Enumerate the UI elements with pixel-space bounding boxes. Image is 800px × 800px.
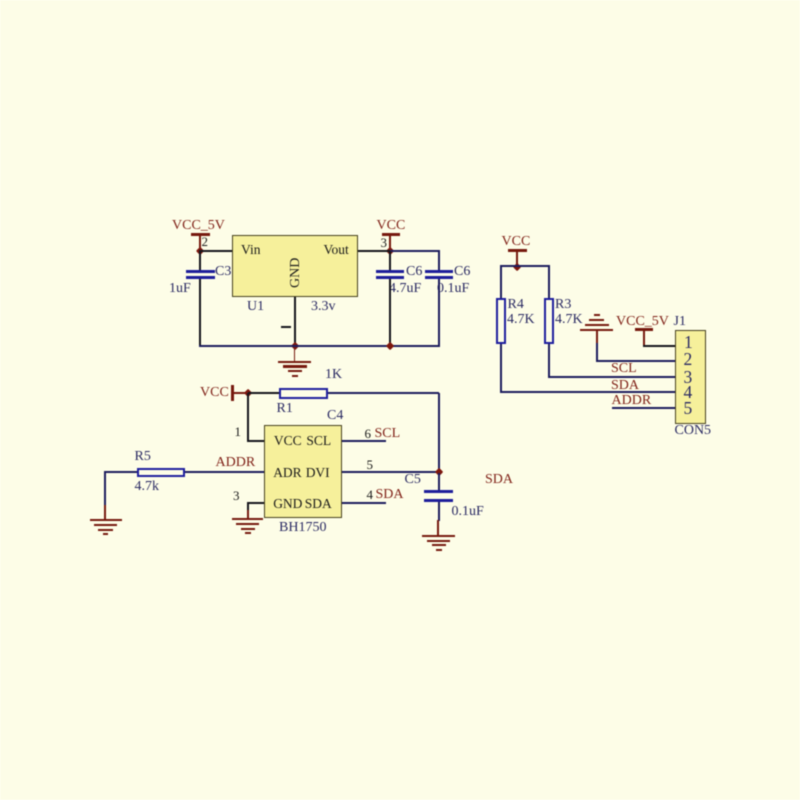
pin name Vout: [324, 243, 349, 257]
designator CON5: [675, 424, 712, 438]
power bar VCC vertical: [231, 385, 233, 401]
net label SDA (pin): [376, 488, 404, 502]
wire SCL column down: [438, 393, 440, 473]
wire ADR pin: [185, 471, 264, 473]
designator U1: [247, 300, 264, 314]
wire VCC to 0.1uF branch: [390, 250, 440, 252]
net label SDA (J1): [611, 379, 639, 393]
resistor R1: [279, 388, 328, 399]
wire R4 top: [500, 266, 502, 298]
wire GND pin down: [247, 503, 249, 511]
wire 0.1uF column upper: [438, 250, 440, 270]
value 1K: [325, 368, 342, 382]
power VCC label (3.3V rail): [377, 219, 406, 233]
wire pull-up top rail: [500, 265, 550, 267]
wire C6 column upper: [389, 251, 391, 270]
junction at GND rail: [290, 342, 299, 351]
designator R3: [555, 298, 571, 312]
resistor R5: [137, 468, 185, 477]
label C6: [406, 265, 422, 279]
junction at C6 / rail: [386, 342, 395, 351]
wire R3 to pin 3: [548, 376, 676, 378]
power VCC_5V label (U1 input): [172, 219, 225, 233]
junction at DVI / C5: [435, 468, 444, 477]
connector J1 box: [675, 330, 706, 424]
power bar VCC: [382, 233, 401, 236]
designator J1: [674, 315, 686, 329]
value 4.7K (R4): [507, 313, 535, 327]
wire left rail upper (to C3): [199, 251, 201, 271]
wire 0.1uF column lower: [438, 279, 440, 346]
resistor R3: [544, 298, 554, 344]
designator R1: [277, 402, 293, 416]
power bar VCC (pull-ups): [508, 249, 527, 252]
label C3: [215, 265, 231, 279]
wire VCC to R1: [248, 392, 280, 394]
capacitor C5: [424, 490, 454, 493]
pin number 2 (J1): [684, 351, 693, 369]
wire C5 column upper: [438, 473, 440, 491]
pin name SDA: [305, 497, 332, 511]
pin number 3 (BH1750): [233, 489, 240, 502]
wire U1 GND stub: [294, 297, 296, 346]
designator R5: [135, 450, 151, 464]
power bar VCC_5V: [191, 233, 210, 236]
ground below U1: [294, 346, 296, 361]
pin number 5 (J1): [684, 400, 693, 418]
pin number 1: [235, 425, 242, 438]
wire R1 to SCL column: [328, 392, 439, 394]
wire R4 to pin 4: [500, 391, 676, 393]
junction at VCC node: [386, 247, 395, 256]
wire DVI pin: [342, 471, 438, 473]
wire ground rail bottom: [199, 345, 440, 347]
voltage regulator U1 box: [232, 235, 357, 297]
ground below R5: [104, 505, 106, 520]
junction at R1 input: [243, 389, 252, 398]
wire R3 bottom down: [548, 344, 550, 378]
label C6 (second): [454, 265, 470, 279]
wire pin 5 stub: [612, 407, 675, 409]
pin name SCL: [306, 434, 331, 448]
earth ground (pin 2): [594, 314, 600, 316]
net label SDA (floating): [485, 473, 513, 487]
net label ADDR (R5): [216, 456, 256, 470]
net label SCL: [375, 427, 401, 441]
resistor R4: [496, 298, 506, 344]
pin 1 dash mark: [281, 326, 291, 328]
pin name DVI: [306, 466, 330, 480]
pin number 4 (J1): [684, 384, 693, 402]
pin number 2: [202, 235, 209, 248]
ground below BH1750: [247, 510, 249, 519]
power bar VCC_5V (J1): [635, 328, 653, 331]
wire Vout stub: [358, 250, 390, 252]
value 4.7uF: [389, 282, 421, 296]
wire ground to pin 2: [596, 360, 678, 362]
value 0.1uF: [437, 282, 469, 296]
ground below C5: [437, 520, 439, 536]
wire C5 column lower: [438, 502, 440, 521]
power VCC label (pull-ups): [502, 235, 531, 249]
value 4.7K (R3): [555, 313, 583, 327]
wire left rail lower: [199, 279, 201, 346]
value 3.3v: [311, 300, 336, 314]
wire Vin stub: [199, 250, 233, 252]
pin number 3: [381, 236, 388, 249]
wire SCL pin stub: [342, 440, 386, 442]
pin number 5: [367, 458, 374, 471]
wire VCC_5V to pin 1: [643, 345, 676, 347]
designator C4: [327, 409, 343, 423]
net label ADDR (J1): [612, 394, 652, 408]
junction at pull-up feed: [513, 262, 522, 271]
pin name ADR: [273, 466, 302, 480]
wire R5 left: [104, 471, 137, 473]
capacitor C3: [186, 270, 215, 273]
power VCC label (R1 feed): [200, 386, 229, 400]
designator BH1750: [279, 521, 326, 535]
wire R3 top: [548, 266, 550, 298]
pin number 3 (J1): [684, 369, 693, 387]
value 0.1uF (C5): [452, 505, 484, 519]
wire R4 bottom down: [500, 344, 502, 394]
value 1uF: [169, 282, 191, 296]
designator R4: [508, 298, 524, 312]
power VCC_5V label (J1): [616, 315, 669, 329]
wire ground to pin 2 down: [596, 343, 598, 361]
capacitor C6 0.1uF: [425, 270, 454, 273]
designator C5: [405, 473, 421, 487]
pin name Vin: [241, 243, 260, 257]
value 4.7k: [135, 480, 160, 494]
wire SDA pin stub: [342, 502, 386, 504]
wire GND pin stub: [247, 502, 264, 504]
pin number 4: [367, 488, 374, 501]
net label SCL (J1): [611, 362, 637, 376]
capacitor C6 4.7uF: [376, 270, 405, 273]
junction at VCC_5V node: [196, 247, 205, 256]
wire C6 column lower: [389, 279, 391, 346]
pin name VCC: [274, 434, 302, 448]
wire into VCC pin: [247, 440, 264, 442]
sensor BH1750 box: [264, 425, 342, 518]
wire R5 down: [104, 472, 106, 506]
pin number 6: [365, 427, 372, 440]
pin name GND rotated: [289, 258, 303, 288]
pin name GND: [273, 497, 302, 511]
pin number 1 (J1): [684, 334, 693, 352]
wire VCC branch down to pin VCC: [247, 393, 249, 441]
